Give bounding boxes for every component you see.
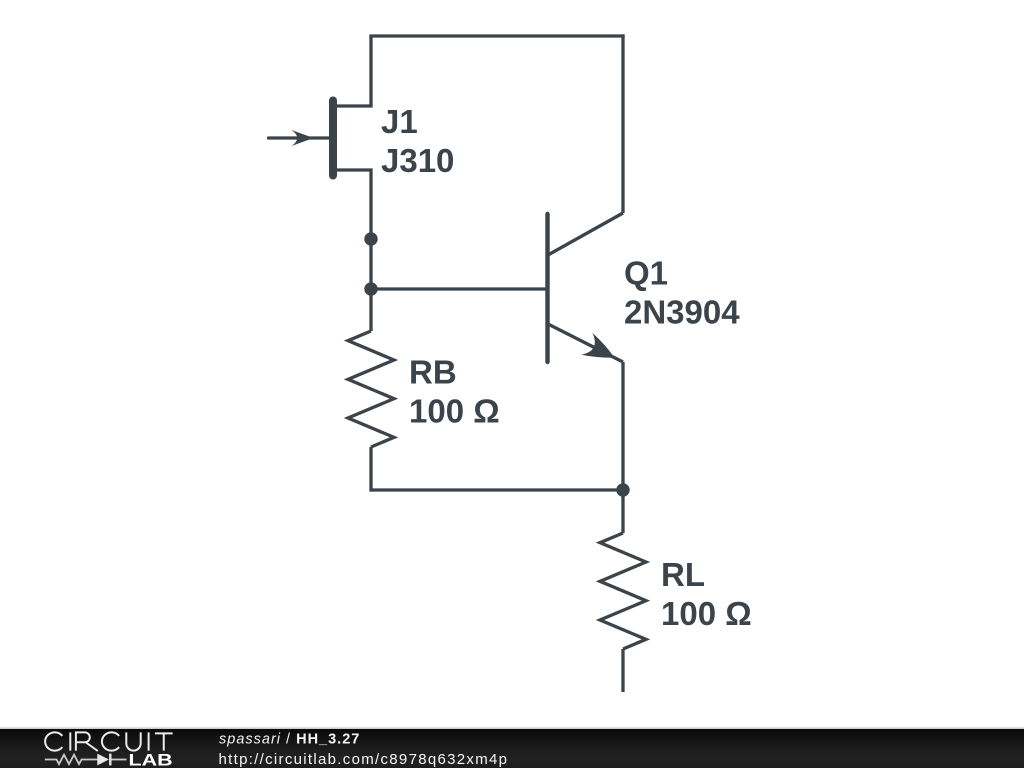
wire drain vertical to top bbox=[369, 36, 372, 108]
node dot 1 bbox=[364, 232, 377, 245]
svg-text:spassari / HH_3.27: spassari / HH_3.27 bbox=[219, 731, 360, 747]
transistor Q1 (NPN BJT, 2N3904) bbox=[548, 213, 624, 369]
logo diode triangle bbox=[97, 754, 109, 766]
svg-text:100 Ω: 100 Ω bbox=[409, 393, 500, 430]
Q1 emitter arrow bbox=[581, 333, 620, 369]
wire RL bottom lead bbox=[621, 649, 624, 692]
wire emitter vertical bbox=[621, 362, 624, 490]
svg-text:RB: RB bbox=[409, 354, 457, 391]
J1 source lead bbox=[337, 168, 373, 171]
logo resistor-diode line bbox=[45, 754, 127, 766]
Q1 base bar bbox=[545, 214, 549, 362]
wire RB bottom bbox=[369, 447, 372, 492]
wire bottom horizontal bbox=[371, 488, 623, 491]
resistor RL bbox=[600, 533, 646, 649]
svg-text:100 Ω: 100 Ω bbox=[661, 595, 752, 632]
CircuitLab logo text CIRCUIT (hand drawn thin letters) bbox=[45, 732, 172, 751]
node dot 3 bbox=[616, 483, 629, 496]
J1 gate bar bbox=[329, 101, 337, 176]
transistor J1 (JFET, J310) bbox=[269, 101, 373, 176]
node dot 2 bbox=[364, 282, 377, 295]
svg-text:2N3904: 2N3904 bbox=[624, 294, 740, 331]
J1 gate arrow bbox=[292, 130, 314, 146]
Q1 emitter lead bbox=[548, 324, 623, 362]
Q1 collector lead bbox=[548, 213, 623, 255]
svg-text:Q1: Q1 bbox=[624, 255, 668, 292]
svg-text:http://circuitlab.com/c8978q63: http://circuitlab.com/c8978q632xm4p bbox=[219, 751, 509, 768]
J1 drain lead bbox=[337, 104, 373, 107]
svg-text:J1: J1 bbox=[381, 103, 418, 140]
resistor RB bbox=[348, 331, 394, 447]
J1 gate lead bbox=[269, 136, 330, 139]
svg-text:J310: J310 bbox=[381, 142, 454, 179]
wire collector vertical bbox=[621, 34, 624, 213]
svg-text:RL: RL bbox=[661, 556, 705, 593]
wire source vertical down bbox=[369, 169, 372, 332]
wire top horizontal bbox=[369, 34, 624, 37]
svg-text:LAB: LAB bbox=[129, 751, 173, 768]
wire node to RL bbox=[621, 490, 624, 533]
wire base horizontal bbox=[371, 287, 546, 290]
